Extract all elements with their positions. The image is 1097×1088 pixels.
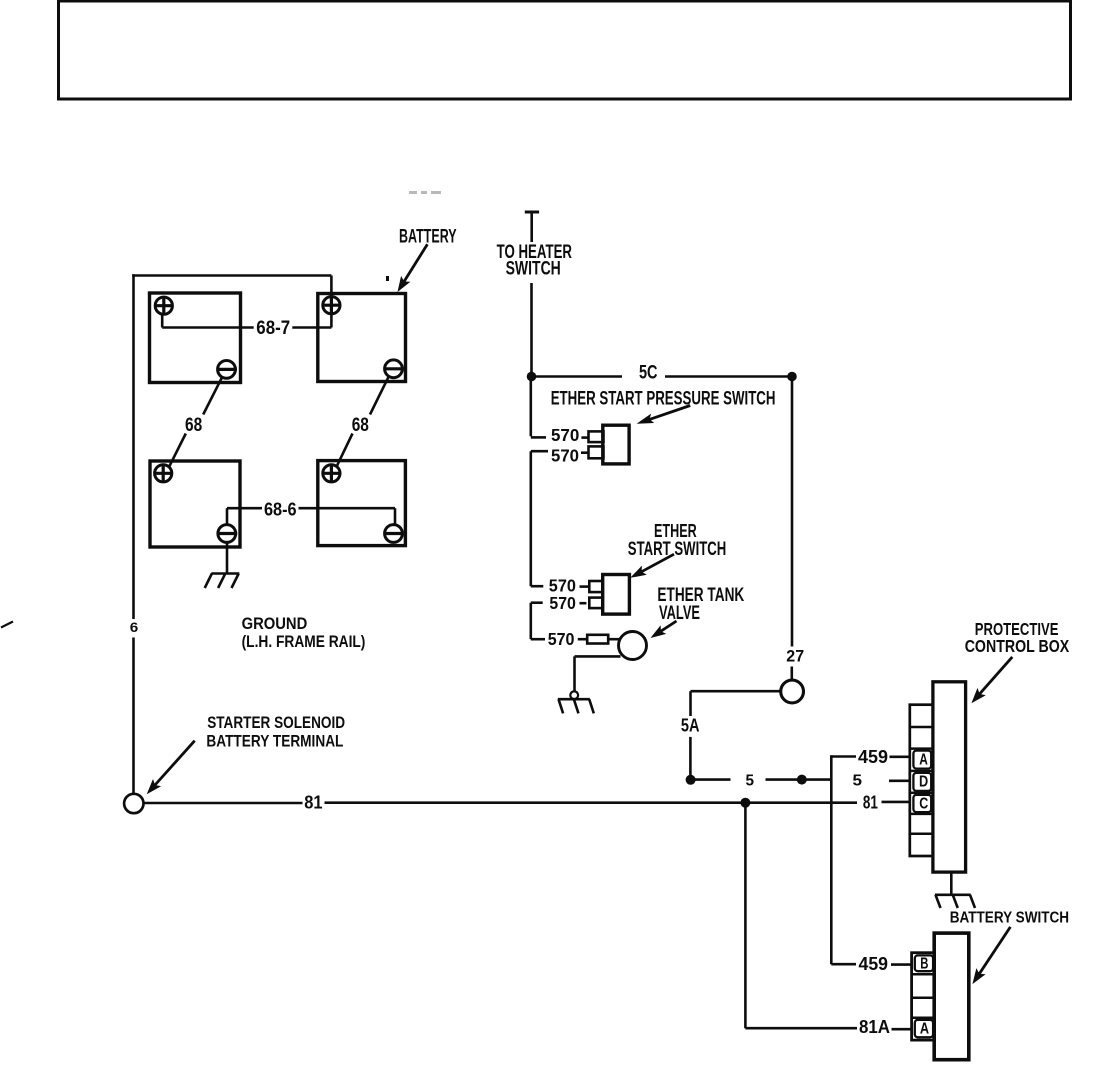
- svg-text:VALVE: VALVE: [659, 603, 700, 624]
- wire 81A drop: [744, 803, 747, 1028]
- battery BT3 negative terminal: [218, 525, 236, 543]
- wire 459 stub to pin B: [891, 963, 913, 966]
- leader arrow to ether tank valve: [661, 621, 677, 631]
- wire 68 left lower diagonal: [169, 434, 186, 468]
- battery switch connector strip: [912, 953, 934, 1040]
- svg-text:C: C: [919, 795, 928, 812]
- wire 5 segment a: [691, 778, 731, 781]
- svg-text:BATTERY: BATTERY: [399, 227, 457, 248]
- pressure switch pin 1: [589, 431, 604, 442]
- wire 5C right segment: [665, 375, 792, 378]
- svg-text:570: 570: [549, 593, 576, 613]
- svg-text:ETHER: ETHER: [654, 520, 697, 541]
- wire top loop horizontal: [132, 274, 331, 277]
- svg-text:68: 68: [185, 414, 202, 436]
- node junction dot 5A/5: [686, 775, 696, 785]
- pin dash 570 no4: [580, 602, 587, 605]
- wire 68-7 right segment: [292, 326, 331, 329]
- pin A cell: [913, 751, 931, 769]
- wire BT2 positive lead: [330, 276, 333, 328]
- battery switch body: [934, 933, 969, 1060]
- ether start switch pin 2: [589, 598, 602, 609]
- svg-text:BATTERY TERMINAL: BATTERY TERMINAL: [206, 731, 343, 750]
- wire left rail lower: [132, 638, 135, 794]
- ether start switch body S2: [603, 575, 630, 615]
- wire 459 corner horizontal: [831, 755, 856, 758]
- svg-text:459: 459: [859, 954, 889, 974]
- valve ground terminal circle: [570, 691, 578, 699]
- leader arrow to battery switch: [979, 927, 1010, 974]
- wire 570 elbow 1: [531, 436, 546, 439]
- battery BT3 case: [150, 461, 240, 547]
- protective control box body: [933, 682, 966, 872]
- wire 459 riser: [830, 755, 833, 964]
- svg-text:27: 27: [786, 648, 804, 666]
- ground symbol protective control box: [935, 893, 971, 896]
- wire heater switch vertical: [530, 283, 533, 374]
- ether start pressure switch body S1: [603, 425, 629, 464]
- node junction dot 5C left: [527, 372, 537, 382]
- pin dash 570 no3: [580, 585, 590, 588]
- svg-text:81: 81: [863, 791, 878, 812]
- svg-text:BATTERY SWITCH: BATTERY SWITCH: [950, 909, 1069, 926]
- battery BT4 positive terminal: [323, 465, 340, 482]
- battery BT2 positive terminal: [323, 297, 340, 314]
- svg-text:6: 6: [130, 619, 139, 635]
- ground symbol battery (frame rail): [211, 572, 239, 575]
- wire control box ground lead: [950, 872, 953, 894]
- svg-text:459: 459: [858, 747, 888, 767]
- pin B cell: [915, 955, 933, 971]
- leader arrow to ether start pressure switch: [650, 406, 691, 420]
- wire valve ground drop: [573, 656, 576, 691]
- svg-text:68-7: 68-7: [256, 318, 290, 339]
- pin C cell: [913, 795, 931, 812]
- wire BT3 negative lead up: [226, 508, 229, 524]
- wire 5 stub to pin D: [889, 779, 911, 782]
- wire 5C to terminal 27 vertical: [791, 377, 794, 647]
- wire 459 corner bottom: [831, 963, 856, 966]
- svg-text:68: 68: [352, 414, 369, 436]
- wire 68-6 left segment: [227, 507, 262, 510]
- svg-text:A: A: [919, 751, 928, 768]
- battery BT1 positive terminal: [155, 297, 172, 314]
- pin A2 cell: [915, 1020, 933, 1038]
- battery BT4 negative terminal: [385, 525, 403, 543]
- wire BT3 negative lead down: [226, 543, 229, 574]
- svg-text:5: 5: [853, 773, 863, 790]
- terminal 27 connector: [781, 680, 804, 703]
- battery BT2 negative terminal: [385, 360, 403, 378]
- svg-text:81: 81: [304, 791, 322, 812]
- svg-text:(L.H. FRAME RAIL): (L.H. FRAME RAIL): [242, 633, 366, 651]
- title block frame: [59, 1, 1071, 99]
- starter solenoid battery terminal: [124, 794, 143, 813]
- pin dash 570 no1: [581, 436, 588, 439]
- leader arrow to battery BT2: [404, 244, 427, 281]
- pressure switch pin 2: [589, 446, 604, 458]
- wire 570 drop 3: [529, 603, 532, 640]
- wire 5A upper vertical: [689, 691, 692, 716]
- battery BT1 case: [150, 293, 241, 383]
- wire 81 segment a: [144, 802, 303, 805]
- node junction dot 5 row: [797, 775, 807, 785]
- wire 27 below label: [790, 667, 793, 680]
- wire 459 stub to pin A: [890, 755, 911, 758]
- wire 5 segment c: [807, 778, 832, 781]
- svg-text:5A: 5A: [681, 714, 700, 735]
- battery BT1 negative terminal: [218, 361, 236, 379]
- wire 81 stub to pin C: [882, 801, 911, 804]
- svg-text:START SWITCH: START SWITCH: [628, 539, 727, 560]
- svg-text:5C: 5C: [639, 363, 658, 384]
- faint scan dashes: [409, 191, 441, 194]
- battery BT3 positive terminal: [155, 465, 172, 482]
- wire 81A horizontal: [745, 1027, 857, 1030]
- svg-text:81A: 81A: [859, 1016, 890, 1037]
- battery BT4 case: [318, 461, 406, 546]
- pin D cell: [913, 773, 931, 791]
- wire 5 segment b: [766, 778, 798, 781]
- svg-text:GROUND: GROUND: [242, 615, 308, 633]
- svg-text:570: 570: [551, 425, 580, 445]
- svg-text:SWITCH: SWITCH: [506, 259, 561, 280]
- stray tick at left margin: [1, 622, 13, 628]
- svg-text:68-6: 68-6: [264, 500, 297, 520]
- wire 570 elbow 3: [531, 585, 544, 588]
- node junction dot 81 row: [740, 798, 750, 808]
- wire BT1 positive lead: [161, 313, 164, 328]
- protective control box connector strip: [910, 705, 933, 856]
- leader arrow to ether start switch: [642, 554, 674, 572]
- wire 81A stub to pin A: [892, 1028, 913, 1031]
- svg-text:CONTROL BOX: CONTROL BOX: [965, 636, 1070, 656]
- to-heater-switch stub T-bar: [525, 211, 539, 214]
- inline connector on valve lead: [587, 635, 608, 644]
- ether start switch pin 1: [589, 581, 602, 592]
- svg-text:570: 570: [551, 445, 579, 465]
- svg-text:570: 570: [548, 629, 575, 649]
- wire 570 elbow 5: [531, 638, 545, 641]
- leader arrow to starter solenoid terminal: [155, 741, 195, 785]
- wire valve to ground horizontal: [575, 655, 621, 658]
- wire BT4 negative lead: [394, 508, 397, 525]
- wire 68 right lower diagonal: [336, 434, 352, 468]
- wire left rail upper: [132, 274, 135, 619]
- battery BT2 case: [318, 294, 406, 382]
- wire 570 elbow 2 top: [531, 450, 548, 453]
- wire 68 right upper diagonal: [370, 376, 389, 414]
- pin dash 570 no2: [581, 451, 589, 454]
- ether tank valve V1: [619, 632, 647, 660]
- node junction dot 5C right: [787, 372, 797, 382]
- wire 81 segment b: [325, 801, 858, 804]
- svg-text:STARTER SOLENOID: STARTER SOLENOID: [207, 713, 345, 732]
- wire 5A lower vertical: [689, 737, 692, 776]
- wire 570 elbow 4 top: [531, 601, 543, 604]
- svg-text:B: B: [920, 955, 928, 972]
- svg-text:A: A: [920, 1021, 930, 1038]
- wire connector to valve: [608, 638, 619, 641]
- pin dash 570 no5: [578, 638, 587, 641]
- svg-text:5: 5: [746, 773, 755, 790]
- wire 570 drop 2: [529, 451, 532, 586]
- ground symbol ether tank valve: [558, 698, 590, 701]
- wire 68-7 left segment: [162, 326, 254, 329]
- svg-text:D: D: [919, 774, 928, 791]
- wire 68-6 right segment: [299, 507, 396, 510]
- leader arrow to protective control box: [980, 657, 1013, 694]
- svg-text:ETHER START PRESSURE SWITCH: ETHER START PRESSURE SWITCH: [551, 388, 776, 410]
- speck: [386, 276, 389, 281]
- wire 5C left segment: [532, 375, 623, 378]
- wire 68 left upper diagonal: [203, 378, 222, 415]
- wire 27 to 5A horizontal: [691, 690, 781, 693]
- wire 570 feed drop 1: [529, 377, 532, 437]
